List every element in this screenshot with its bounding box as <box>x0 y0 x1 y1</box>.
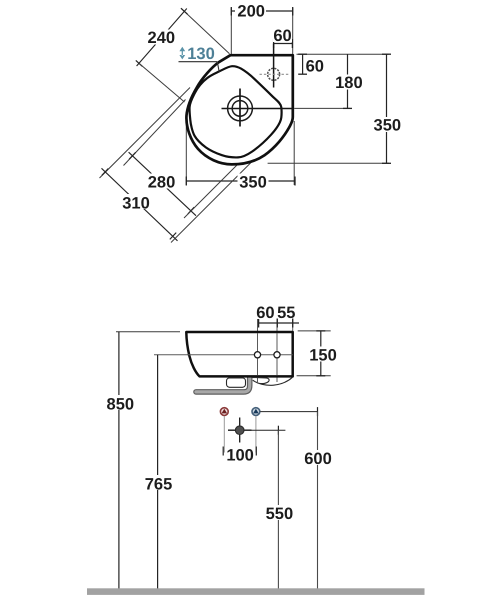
tick 280 NW <box>129 152 135 159</box>
hot water symbol (red) <box>220 408 228 416</box>
extension line left vertical (basin left extent down) <box>185 119 187 185</box>
svg-text:100: 100 <box>226 446 254 464</box>
extension line 280 upper (rim to SW) <box>124 100 186 166</box>
dimension line 60 right vertical <box>302 54 304 74</box>
floor tick 765 <box>154 589 161 591</box>
cold water symbol (blue) <box>252 408 260 416</box>
trap pipe outline <box>196 377 250 392</box>
svg-text:550: 550 <box>266 505 294 523</box>
hole centerline across basin (765 extension) <box>154 354 293 356</box>
text 350 right <box>372 117 403 132</box>
extension line 240 upper (chamfer point to NW) <box>182 9 230 54</box>
extension line right vertical (basin right edge down) <box>293 121 295 185</box>
mounting hole left <box>254 352 260 358</box>
text 350 bottom <box>238 174 269 189</box>
extension line 200 left (from chamfer point up) <box>230 8 232 60</box>
dimension line 550 <box>277 430 279 589</box>
cold water extension line right <box>260 411 318 413</box>
faucet hole horizontal dashed centerline <box>260 73 291 75</box>
floor tick 600 <box>314 589 321 591</box>
svg-text:60: 60 <box>273 27 291 45</box>
text 240 <box>144 30 178 45</box>
basin inner bowl <box>190 66 282 157</box>
extension line 150 bottom <box>297 375 331 377</box>
hole extension vertical left <box>257 319 259 383</box>
text 850 <box>104 395 136 410</box>
tick 240 lower <box>136 60 143 66</box>
mounting hole right <box>274 352 280 358</box>
waste drain symbol <box>239 418 241 443</box>
drain extension line right <box>252 429 286 431</box>
extension line 280 lower (basin bottom to SW) <box>184 162 240 218</box>
extension line 200/60 right (corner up) <box>292 8 294 54</box>
svg-text:60: 60 <box>256 304 274 322</box>
drain outer circle <box>228 96 253 121</box>
130 leader underline <box>179 61 218 63</box>
extension line 850 top (rim level, to left of basin) <box>116 331 180 333</box>
text 765 <box>142 475 174 490</box>
svg-text:200: 200 <box>237 3 265 21</box>
dimension line 600 <box>317 412 319 589</box>
hole extension vertical right <box>276 319 278 383</box>
dimension line 765 <box>157 355 159 589</box>
text 100 <box>226 448 255 462</box>
extension line 150 top <box>298 330 331 332</box>
drain crosshair horizontal <box>222 108 293 110</box>
dimension line 310 diagonal <box>102 168 178 241</box>
floor bar <box>87 588 425 595</box>
dimension line 60 top (faucet to corner) <box>274 43 293 45</box>
extension line 310 lower (basin front to SW) <box>171 162 252 243</box>
tick 100 right <box>255 447 257 456</box>
text 200 <box>235 4 266 19</box>
svg-text:180: 180 <box>335 74 363 92</box>
floor tick 550 <box>275 589 282 591</box>
dimension line 150 <box>320 331 322 376</box>
svg-text:350: 350 <box>374 117 402 135</box>
extension line 180 bottom (drain level, right of basin) <box>294 107 350 109</box>
drop line from red <box>223 416 225 453</box>
drop line from blue <box>255 416 257 453</box>
svg-text:60: 60 <box>306 58 324 76</box>
svg-text:130: 130 <box>187 45 215 63</box>
tick 100 left <box>222 447 224 456</box>
svg-text:350: 350 <box>239 174 267 192</box>
basin outer rim <box>186 55 292 164</box>
top extension line right of corner <box>297 53 389 55</box>
svg-text:600: 600 <box>304 450 332 468</box>
dimension line 200 <box>231 10 292 12</box>
under-bowl curve <box>253 377 293 385</box>
extension line 310 upper (rim to SW) <box>100 88 191 179</box>
text 60 (elevation) <box>256 305 275 319</box>
svg-text:240: 240 <box>148 29 176 47</box>
floor tick 850 <box>115 589 122 591</box>
dimension line 240 diagonal <box>137 9 187 67</box>
text 60 top <box>273 28 292 42</box>
text 280 <box>146 174 177 189</box>
text 150 <box>307 347 338 362</box>
130 updown arrow glyph <box>179 47 185 60</box>
hole centerline inside basin redrawn <box>187 354 293 356</box>
130 leader pointer <box>217 62 219 73</box>
svg-text:150: 150 <box>309 346 337 364</box>
dimension line 850 <box>118 332 120 589</box>
tick 310 SE <box>170 233 176 240</box>
tick 550 top <box>277 426 279 435</box>
right edge extension up <box>292 319 294 332</box>
tick 600 top <box>317 407 319 416</box>
trap pipe fill <box>196 377 250 392</box>
faucet hole vertical centerline <box>273 44 275 88</box>
tick 310 NW <box>102 169 108 176</box>
text 550 <box>264 505 295 520</box>
text 600 <box>303 450 334 465</box>
tick 280 SE <box>188 207 194 214</box>
dimension line 350 bottom <box>186 180 295 182</box>
drain recess under basin <box>227 378 246 387</box>
drain crosshair vertical <box>239 89 241 127</box>
extension line 240 lower to rim <box>139 63 184 102</box>
dimension line 350 right <box>386 54 388 163</box>
svg-text:765: 765 <box>145 476 173 494</box>
svg-text:55: 55 <box>277 304 295 322</box>
tick 240 upper <box>181 8 188 14</box>
svg-text:310: 310 <box>122 194 150 212</box>
svg-text:850: 850 <box>107 396 135 414</box>
hole verticals inside basin redrawn <box>257 333 259 375</box>
dimension line 180 <box>347 54 349 108</box>
dimension line 60/55 <box>259 322 299 324</box>
drain inner circle <box>232 101 248 117</box>
faucet hole dashed circle <box>268 68 280 80</box>
text 310 <box>120 194 152 209</box>
svg-text:280: 280 <box>148 174 176 192</box>
extension line 350 right bottom (basin bottom level) <box>268 162 389 164</box>
text 180 <box>334 75 364 90</box>
drain boss lip <box>252 377 269 383</box>
basin profile <box>186 332 292 376</box>
dimension line 280 diagonal <box>129 152 196 216</box>
